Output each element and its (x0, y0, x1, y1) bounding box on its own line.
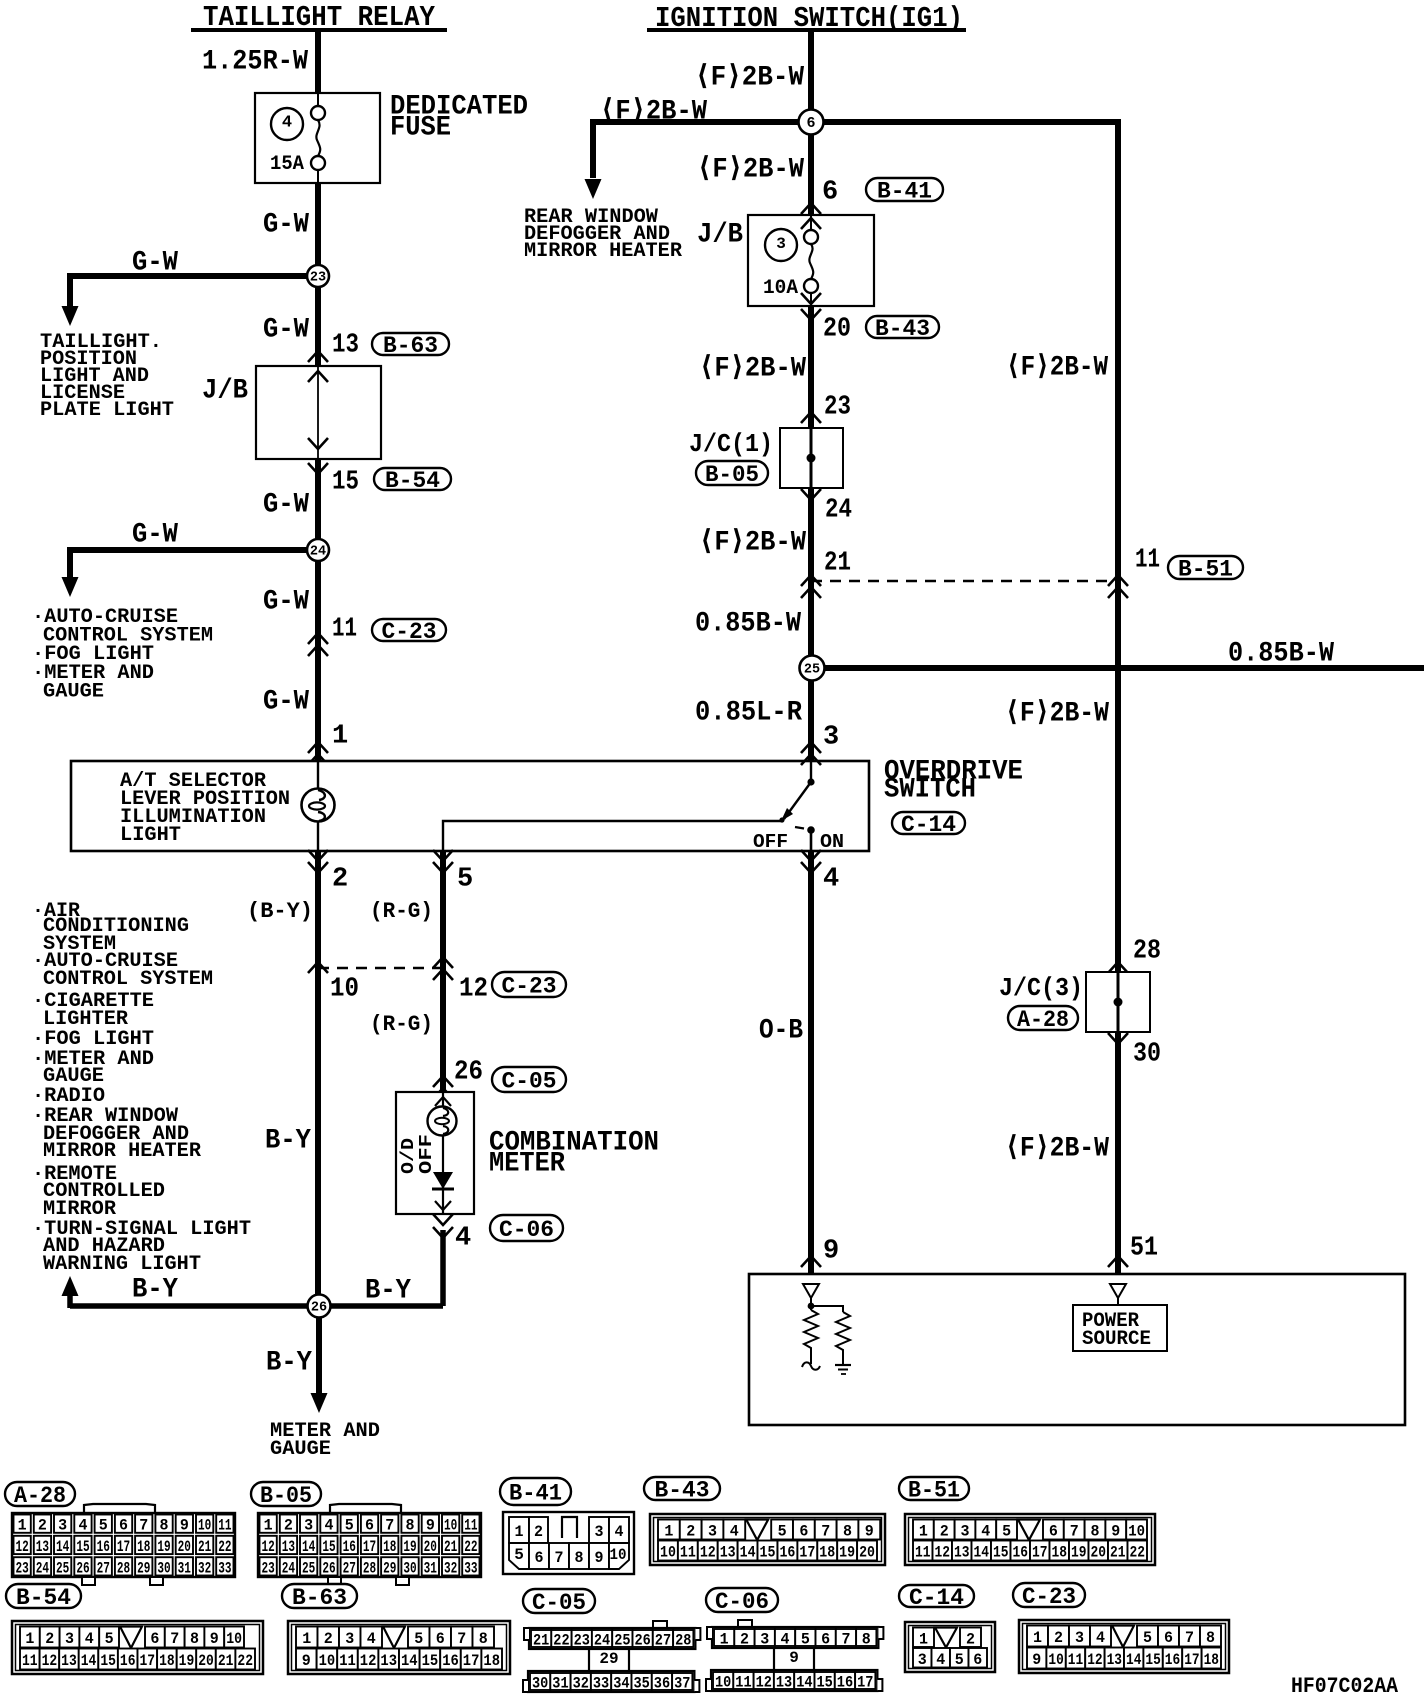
svg-text:31: 31 (424, 1559, 437, 1577)
svg-text:9: 9 (1032, 1651, 1041, 1669)
chevron pin 3 (801, 742, 821, 753)
svg-text:4: 4 (730, 1523, 739, 1541)
svg-text:6: 6 (799, 1523, 808, 1541)
svg-text:3: 3 (304, 1517, 313, 1535)
svg-text:10: 10 (444, 1517, 457, 1535)
svg-text:22: 22 (553, 1632, 569, 1650)
svg-text:33: 33 (593, 1675, 609, 1693)
svg-text:18: 18 (137, 1538, 150, 1556)
svg-text:8: 8 (190, 1630, 199, 1648)
svg-text:21: 21 (1110, 1544, 1126, 1562)
svg-text:8: 8 (406, 1517, 415, 1535)
svg-text:2: 2 (940, 1523, 949, 1541)
svg-text:C-14: C-14 (901, 812, 956, 838)
terminal triangle pin 51 (1110, 1284, 1126, 1298)
connector B-54 callout (374, 468, 451, 494)
svg-text:⟨F⟩2B-W: ⟨F⟩2B-W (1005, 698, 1109, 729)
connector C-23 pin diagram (1013, 1583, 1085, 1610)
svg-text:B-41: B-41 (877, 178, 932, 204)
svg-text:5: 5 (457, 865, 473, 895)
svg-text:9: 9 (302, 1652, 311, 1670)
svg-text:7: 7 (385, 1517, 394, 1535)
svg-text:1: 1 (720, 1631, 729, 1649)
svg-text:28: 28 (675, 1632, 691, 1650)
chevron pin 20 (801, 293, 821, 304)
svg-text:6: 6 (822, 178, 838, 208)
svg-text:32: 32 (444, 1559, 457, 1577)
load list: air conditioning etc (32, 900, 251, 1276)
svg-text:9: 9 (595, 1549, 604, 1567)
wire node 24 down, label G-W (315, 560, 321, 761)
svg-text:24: 24 (310, 545, 326, 560)
svg-text:PLATE LIGHT: PLATE LIGHT (40, 399, 174, 422)
svg-text:22: 22 (218, 1538, 231, 1556)
svg-text:10: 10 (610, 1546, 627, 1564)
svg-text:6: 6 (436, 1630, 445, 1648)
svg-text:HF07C02AA: HF07C02AA (1291, 1674, 1399, 1699)
svg-text:B-Y: B-Y (265, 1125, 311, 1156)
svg-text:5: 5 (105, 1630, 114, 1648)
svg-text:16: 16 (343, 1538, 356, 1556)
svg-text:GAUGE: GAUGE (43, 681, 104, 704)
label COMBINATION METER (489, 1127, 659, 1179)
svg-text:34: 34 (613, 1675, 630, 1693)
connector C-23 callout (pins 10,12) (492, 972, 566, 999)
svg-text:33: 33 (464, 1559, 477, 1577)
chevron inside meter top (435, 1097, 451, 1106)
svg-text:11: 11 (218, 1517, 231, 1535)
svg-text:16: 16 (1013, 1544, 1029, 1562)
svg-text:21: 21 (824, 549, 851, 579)
dedicated fuse F4 15A (255, 93, 380, 183)
connector C-14 pin diagram (899, 1585, 974, 1611)
svg-text:1: 1 (332, 722, 348, 752)
svg-text:4: 4 (823, 865, 839, 895)
svg-text:21: 21 (218, 1652, 234, 1670)
svg-text:15: 15 (100, 1652, 116, 1670)
svg-text:6: 6 (821, 1631, 830, 1649)
wire title to node 6 (808, 30, 814, 122)
svg-text:16: 16 (442, 1652, 459, 1670)
svg-text:26: 26 (454, 1058, 483, 1088)
connector B-05 callout (696, 461, 768, 488)
svg-text:⟨F⟩2B-W: ⟨F⟩2B-W (699, 353, 806, 384)
svg-text:B-54: B-54 (385, 468, 440, 494)
chevron pin 13 (308, 351, 328, 362)
svg-text:19: 19 (403, 1538, 416, 1556)
svg-text:6: 6 (119, 1517, 128, 1535)
connector C-05 callout (492, 1067, 566, 1094)
junction dot and branch (808, 1298, 843, 1312)
svg-text:20: 20 (823, 315, 851, 345)
svg-text:31: 31 (552, 1675, 568, 1693)
svg-text:23: 23 (262, 1559, 275, 1577)
label OVERDRIVE SWITCH (884, 756, 1023, 805)
svg-text:(R-G): (R-G) (370, 1012, 433, 1037)
svg-text:G-W: G-W (263, 586, 309, 617)
connector A-28 callout (1008, 1006, 1078, 1033)
svg-text:B-Y: B-Y (365, 1275, 411, 1306)
svg-text:3: 3 (760, 1631, 769, 1649)
svg-text:A-28: A-28 (1017, 1007, 1069, 1033)
svg-text:25: 25 (302, 1559, 315, 1577)
chevron pin 51 (1108, 1256, 1128, 1267)
svg-text:26: 26 (311, 1301, 327, 1316)
chevron pin 1 (308, 742, 328, 753)
wire node6 to J/B, label (F)2B-W (808, 134, 814, 215)
svg-text:19: 19 (1071, 1544, 1087, 1562)
bottom component box (749, 1274, 1405, 1425)
node 24 (307, 539, 329, 561)
svg-text:21: 21 (444, 1538, 457, 1556)
wire from TAILLIGHT RELAY to dedicated fuse (315, 30, 321, 93)
svg-text:11: 11 (22, 1652, 38, 1670)
svg-text:13: 13 (720, 1544, 736, 1562)
svg-text:23: 23 (310, 271, 326, 286)
svg-text:27: 27 (343, 1559, 356, 1577)
dashed link pin 21 to pin 11 (811, 580, 1118, 582)
connector B-63 pin diagram (282, 1584, 357, 1611)
svg-text:15: 15 (422, 1652, 439, 1670)
branch wire to rear window defogger (593, 119, 811, 125)
diode symbol (432, 1172, 454, 1189)
svg-text:9: 9 (865, 1523, 874, 1541)
svg-text:⟨F⟩2B-W: ⟨F⟩2B-W (1005, 1133, 1109, 1164)
title TAILLIGHT RELAY (191, 1, 447, 34)
svg-text:51: 51 (1130, 1234, 1158, 1264)
svg-text:15: 15 (993, 1544, 1009, 1562)
svg-text:16: 16 (837, 1674, 853, 1692)
svg-text:7: 7 (821, 1523, 830, 1541)
node 26 (308, 1295, 331, 1318)
svg-text:6: 6 (150, 1630, 159, 1648)
node 23 (307, 265, 329, 287)
svg-text:5: 5 (1002, 1523, 1011, 1541)
J/B box (middle) with fuse 3 10A (748, 215, 874, 306)
svg-text:2: 2 (966, 1630, 975, 1648)
svg-text:11: 11 (1068, 1651, 1083, 1669)
svg-text:5: 5 (514, 1546, 524, 1564)
connector B-41 callout (866, 178, 943, 204)
svg-text:25: 25 (614, 1632, 630, 1650)
svg-text:10: 10 (198, 1517, 211, 1535)
overdrive switch contact (779, 761, 814, 851)
svg-text:33: 33 (218, 1559, 231, 1577)
svg-text:37: 37 (674, 1675, 690, 1693)
svg-text:28: 28 (117, 1559, 130, 1577)
svg-text:26: 26 (322, 1559, 335, 1577)
svg-text:17: 17 (140, 1652, 156, 1670)
svg-text:1: 1 (264, 1517, 273, 1535)
svg-text:3: 3 (961, 1523, 970, 1541)
svg-text:13: 13 (380, 1652, 397, 1670)
wire through combination meter (442, 1092, 444, 1214)
wire through A/T box (x318) (317, 761, 319, 851)
svg-text:1: 1 (919, 1523, 928, 1541)
svg-text:7: 7 (841, 1631, 850, 1649)
svg-text:25: 25 (804, 663, 820, 678)
chevron pin 6 (801, 203, 821, 214)
svg-text:20: 20 (859, 1544, 875, 1562)
svg-text:24: 24 (594, 1632, 611, 1650)
arrow up to turn-signal loads (62, 1276, 79, 1296)
svg-text:3: 3 (823, 723, 839, 753)
svg-text:27: 27 (655, 1632, 671, 1650)
chevron pin 23 (801, 412, 821, 423)
svg-text:0.85B-W: 0.85B-W (1228, 638, 1334, 669)
svg-text:13: 13 (776, 1674, 792, 1692)
svg-text:20: 20 (1091, 1544, 1107, 1562)
connector B-05 pin diagram (251, 1482, 321, 1509)
svg-text:WARNING LIGHT: WARNING LIGHT (43, 1253, 201, 1276)
svg-text:12: 12 (459, 975, 488, 1005)
connector C-23 callout (pin 11) (372, 619, 446, 645)
label METER AND GAUGE (270, 1420, 380, 1461)
svg-text:B-43: B-43 (655, 1477, 710, 1503)
svg-text:4: 4 (85, 1630, 94, 1648)
svg-text:B-41: B-41 (509, 1480, 562, 1506)
svg-text:14: 14 (81, 1652, 97, 1670)
svg-text:⟨F⟩2B-W: ⟨F⟩2B-W (1006, 352, 1108, 383)
svg-text:7: 7 (1070, 1523, 1079, 1541)
connector B-41 pin diagram (500, 1478, 571, 1506)
connector C-05 pin diagram (523, 1589, 595, 1616)
resistor (left) (804, 1310, 818, 1353)
svg-text:14: 14 (974, 1544, 990, 1562)
chevron pin 26 (433, 1076, 453, 1087)
svg-text:36: 36 (654, 1675, 670, 1693)
svg-text:15A: 15A (270, 153, 304, 176)
wire pin5 down (R-G) (440, 851, 446, 1092)
svg-text:30: 30 (1133, 1040, 1161, 1070)
svg-text:9: 9 (1111, 1523, 1120, 1541)
svg-text:8: 8 (575, 1549, 584, 1567)
svg-text:4: 4 (455, 1224, 471, 1254)
svg-text:26: 26 (76, 1559, 89, 1577)
chevron meter bottom (435, 1201, 451, 1210)
connector B-54 pin diagram (6, 1584, 81, 1611)
svg-text:9: 9 (789, 1649, 799, 1667)
svg-text:MIRROR HEATER: MIRROR HEATER (524, 240, 682, 263)
svg-text:29: 29 (599, 1650, 618, 1668)
svg-text:30: 30 (532, 1675, 548, 1693)
svg-text:18: 18 (383, 1538, 396, 1556)
svg-text:15: 15 (817, 1674, 833, 1692)
connector B-43 pin diagram (644, 1477, 720, 1503)
svg-text:4: 4 (78, 1517, 87, 1535)
B-Y horizontal wire to node 26 (70, 1303, 443, 1309)
svg-text:2: 2 (324, 1630, 333, 1648)
svg-text:15: 15 (1145, 1651, 1160, 1669)
svg-text:32: 32 (198, 1559, 211, 1577)
connector C-14 callout (892, 812, 965, 838)
svg-text:24: 24 (825, 496, 852, 526)
A/T selector lever position illumination light box (71, 761, 869, 851)
svg-text:23: 23 (824, 393, 851, 423)
wire pin2 down (B-Y) (315, 851, 321, 1306)
svg-text:5: 5 (955, 1651, 964, 1669)
svg-text:16: 16 (779, 1544, 795, 1562)
svg-text:10: 10 (715, 1674, 731, 1692)
svg-text:G-W: G-W (263, 209, 309, 240)
svg-text:3: 3 (708, 1523, 717, 1541)
svg-text:17: 17 (1032, 1544, 1048, 1562)
wire node 25 down, label 0.85L-R (808, 680, 814, 761)
svg-text:1: 1 (664, 1523, 673, 1541)
ground symbol (835, 1350, 851, 1374)
svg-text:8: 8 (160, 1517, 169, 1535)
svg-text:10: 10 (330, 975, 359, 1005)
svg-text:A-28: A-28 (14, 1483, 66, 1509)
svg-text:SWITCH: SWITCH (884, 774, 976, 805)
combination meter box (396, 1092, 474, 1214)
svg-text:2: 2 (284, 1517, 293, 1535)
svg-text:METER: METER (489, 1148, 565, 1179)
svg-text:16: 16 (1165, 1651, 1180, 1669)
svg-text:(R-G): (R-G) (370, 899, 433, 924)
svg-text:FUSE: FUSE (390, 112, 451, 143)
svg-text:3: 3 (776, 235, 786, 253)
svg-text:9: 9 (823, 1237, 839, 1267)
svg-text:32: 32 (573, 1675, 589, 1693)
svg-text:B-51: B-51 (1178, 556, 1233, 582)
svg-text:14: 14 (1126, 1651, 1142, 1669)
label DEDICATED FUSE (390, 91, 528, 143)
svg-text:G-W: G-W (132, 519, 178, 550)
svg-text:5: 5 (1143, 1629, 1152, 1647)
chevron pin 24 (801, 489, 821, 500)
svg-text:C-05: C-05 (502, 1068, 557, 1094)
illumination lamp symbol (302, 789, 335, 822)
svg-text:22: 22 (237, 1652, 253, 1670)
chevron pin 30 (1108, 1033, 1128, 1044)
right trunk wire (F)2B-W (1115, 122, 1121, 1274)
svg-text:29: 29 (383, 1559, 396, 1577)
svg-text:CONTROL SYSTEM: CONTROL SYSTEM (43, 968, 213, 991)
branch wire to taillight loads (70, 273, 318, 279)
svg-text:B-43: B-43 (875, 316, 930, 342)
resistor (right) (836, 1312, 850, 1358)
svg-text:1.25R-W: 1.25R-W (202, 46, 308, 77)
svg-text:(B-Y): (B-Y) (247, 899, 313, 924)
svg-text:20: 20 (178, 1538, 191, 1556)
svg-text:11: 11 (680, 1544, 696, 1562)
svg-text:21: 21 (198, 1538, 211, 1556)
svg-text:0.85L-R: 0.85L-R (695, 697, 802, 728)
svg-text:6: 6 (1049, 1523, 1058, 1541)
chevron pin 15 (308, 463, 328, 474)
connector A-28 pin diagram (5, 1482, 75, 1509)
svg-text:B-63: B-63 (383, 333, 438, 359)
svg-text:6: 6 (806, 115, 815, 132)
svg-text:4: 4 (324, 1517, 333, 1535)
svg-text:12: 12 (1087, 1651, 1102, 1669)
label REAR WINDOW DEFOGGER AND MIRROR HEATER (524, 206, 682, 263)
label A/T selector lever position illumination light (120, 770, 290, 847)
svg-text:1: 1 (515, 1523, 524, 1541)
svg-text:J/B: J/B (202, 375, 248, 406)
svg-text:B-54: B-54 (16, 1585, 71, 1611)
svg-text:7: 7 (555, 1549, 564, 1567)
svg-text:12: 12 (16, 1538, 29, 1556)
svg-text:13: 13 (36, 1538, 49, 1556)
svg-text:12: 12 (935, 1544, 951, 1562)
svg-text:22: 22 (1130, 1544, 1146, 1562)
svg-text:1: 1 (302, 1630, 311, 1648)
svg-text:18: 18 (1204, 1651, 1219, 1669)
svg-text:7: 7 (1185, 1629, 1194, 1647)
svg-text:11: 11 (332, 615, 357, 645)
wire overdrive sw down (O-B) (808, 851, 814, 1274)
svg-text:1: 1 (18, 1517, 27, 1535)
svg-text:C-23: C-23 (1022, 1584, 1076, 1610)
svg-text:B-Y: B-Y (132, 1274, 178, 1305)
svg-text:B-Y: B-Y (266, 1347, 312, 1378)
svg-text:8: 8 (1091, 1523, 1100, 1541)
svg-text:18: 18 (819, 1544, 835, 1562)
svg-text:10: 10 (1048, 1651, 1063, 1669)
svg-text:25: 25 (56, 1559, 69, 1577)
svg-text:22: 22 (464, 1538, 477, 1556)
svg-text:24: 24 (282, 1559, 296, 1577)
svg-text:19: 19 (157, 1538, 170, 1556)
svg-text:10A: 10A (763, 277, 798, 300)
svg-text:15: 15 (760, 1544, 776, 1562)
svg-text:35: 35 (634, 1675, 650, 1693)
svg-text:13: 13 (954, 1544, 970, 1562)
svg-text:2: 2 (686, 1523, 695, 1541)
svg-text:13: 13 (61, 1652, 77, 1670)
wire J/B to node 24, label G-W (315, 459, 321, 550)
svg-text:4: 4 (615, 1523, 624, 1541)
svg-text:9: 9 (180, 1517, 189, 1535)
svg-text:3: 3 (345, 1630, 354, 1648)
svg-text:2: 2 (38, 1517, 47, 1535)
svg-text:O/D: O/D (399, 1138, 419, 1174)
svg-text:7: 7 (170, 1630, 179, 1648)
svg-text:B-51: B-51 (908, 1477, 960, 1503)
svg-text:B-05: B-05 (260, 1483, 312, 1509)
svg-text:12: 12 (700, 1544, 716, 1562)
svg-text:14: 14 (401, 1652, 418, 1670)
svg-text:7: 7 (139, 1517, 148, 1535)
svg-text:17: 17 (1184, 1651, 1199, 1669)
svg-text:0.85B-W: 0.85B-W (695, 608, 801, 639)
wire branch inside A/T box to pin 5 (443, 821, 783, 851)
svg-text:⟨F⟩2B-W: ⟨F⟩2B-W (600, 96, 707, 127)
arrow to meter and gauge (311, 1393, 328, 1413)
svg-text:14: 14 (740, 1544, 756, 1562)
svg-text:12: 12 (360, 1652, 377, 1670)
svg-text:3: 3 (58, 1517, 67, 1535)
svg-text:17: 17 (117, 1538, 130, 1556)
svg-text:12: 12 (42, 1652, 58, 1670)
J/B box (left) (256, 366, 381, 459)
svg-text:G-W: G-W (263, 686, 309, 717)
svg-text:8: 8 (862, 1631, 871, 1649)
connector C-06 pin diagram (706, 1588, 778, 1615)
svg-text:8: 8 (843, 1523, 852, 1541)
svg-text:2: 2 (740, 1631, 749, 1649)
svg-text:19: 19 (839, 1544, 855, 1562)
svg-text:31: 31 (178, 1559, 191, 1577)
svg-text:23: 23 (16, 1559, 29, 1577)
svg-text:20: 20 (424, 1538, 437, 1556)
svg-text:17: 17 (363, 1538, 376, 1556)
connector B-51 callout (1168, 556, 1243, 582)
node 25 with horizontal 0.85B-W wire (812, 665, 1424, 671)
connector B-63 callout (372, 333, 449, 359)
